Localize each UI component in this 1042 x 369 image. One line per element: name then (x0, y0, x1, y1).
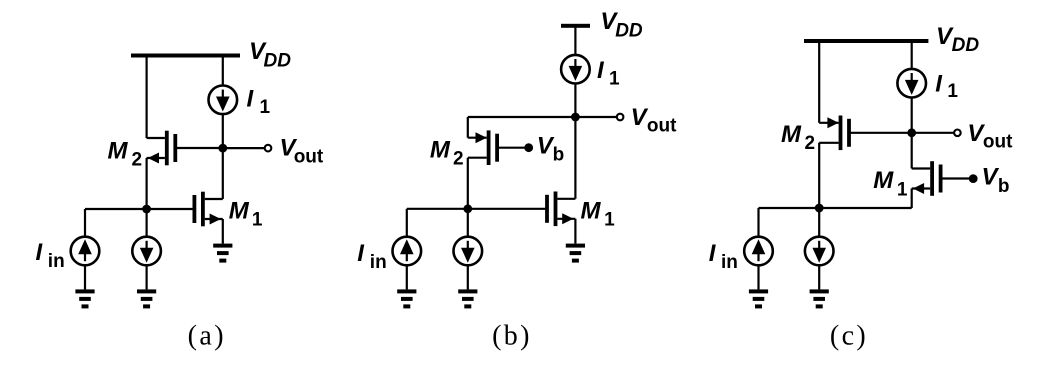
svg-text:1: 1 (260, 97, 271, 118)
svg-text:out: out (983, 131, 1013, 152)
svg-text:I: I (36, 239, 44, 266)
svg-text:V: V (631, 104, 649, 131)
svg-text:I: I (709, 240, 717, 267)
svg-text:1: 1 (947, 81, 958, 102)
svg-text:2: 2 (132, 150, 143, 171)
svg-text:M: M (873, 167, 894, 194)
svg-text:out: out (647, 116, 677, 137)
svg-text:M: M (581, 198, 602, 225)
svg-text:2: 2 (453, 149, 464, 170)
svg-text:I: I (247, 85, 255, 112)
svg-text:out: out (294, 147, 324, 168)
svg-text:2: 2 (805, 133, 816, 154)
svg-text:b: b (553, 145, 565, 166)
svg-text:in: in (370, 252, 387, 273)
svg-text:M: M (229, 198, 250, 225)
svg-text:I: I (935, 71, 943, 98)
svg-text:M: M (108, 137, 129, 164)
svg-text:V: V (982, 164, 1000, 191)
svg-text:(b): (b) (492, 321, 532, 352)
svg-text:1: 1 (609, 69, 620, 90)
svg-text:I: I (357, 240, 365, 267)
svg-text:b: b (998, 176, 1010, 197)
svg-text:1: 1 (604, 210, 615, 231)
svg-text:I: I (597, 57, 605, 84)
svg-text:M: M (781, 121, 802, 148)
svg-text:DD: DD (264, 50, 292, 71)
svg-text:(a): (a) (188, 321, 226, 352)
svg-text:(c): (c) (830, 321, 868, 352)
svg-text:1: 1 (897, 179, 908, 200)
svg-text:DD: DD (615, 21, 643, 42)
svg-text:in: in (721, 252, 738, 273)
svg-text:DD: DD (952, 35, 980, 56)
svg-text:1: 1 (252, 210, 263, 231)
svg-text:M: M (430, 137, 451, 164)
svg-text:in: in (48, 251, 65, 272)
